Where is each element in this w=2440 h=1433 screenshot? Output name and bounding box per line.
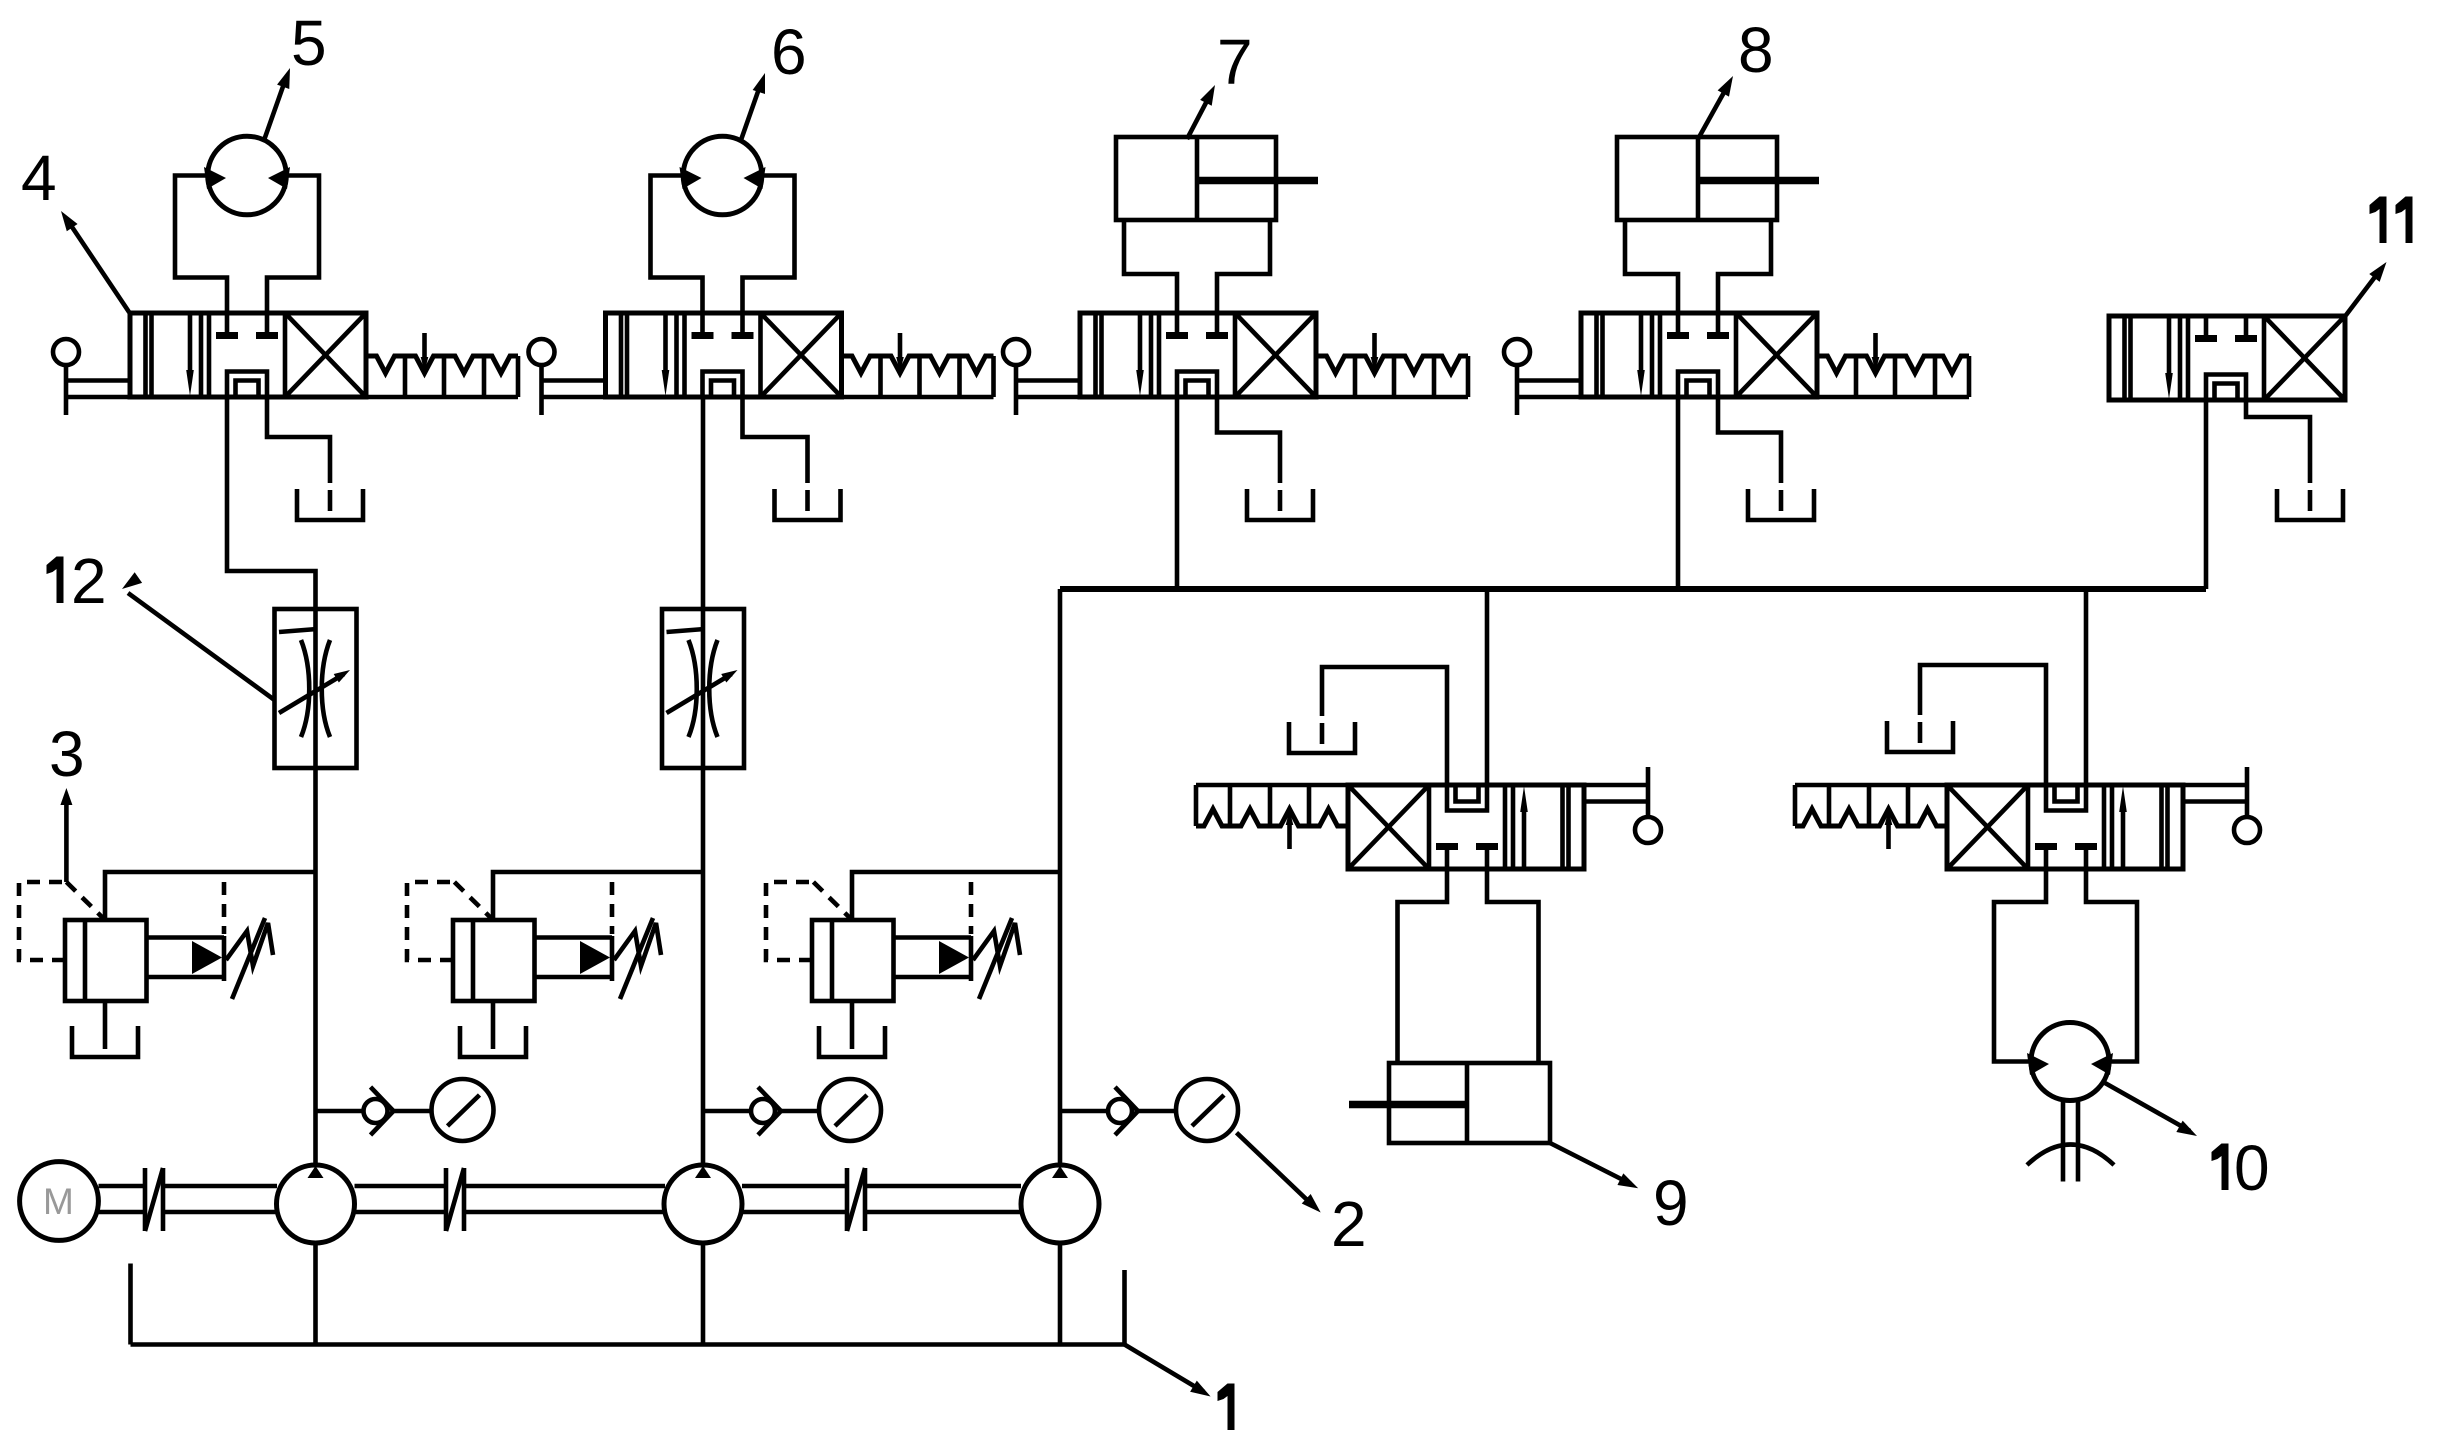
relief valve 3a outlet channel: [147, 935, 225, 940]
wire: valve11 feed to bus: [2204, 400, 2209, 589]
wire: valve1 tank drain: [267, 397, 330, 483]
wire: valve1 feed to flow valve: [227, 397, 316, 609]
relief valve 3a pilot dashed box: [19, 882, 66, 960]
wire: cyl9 funnel right: [1487, 869, 1539, 1063]
relief valve 3b poppet arrow: [580, 941, 610, 974]
coupling 1: [143, 1168, 148, 1231]
wire: cyl9 funnel left: [1398, 869, 1448, 1063]
valve 2 lever: [529, 339, 606, 415]
svg-text:2: 2: [71, 545, 107, 617]
wire: valve4 feed to bus: [1676, 397, 1681, 589]
flow valve 1 adjust tick: [279, 629, 317, 632]
wire: motor5 loop: [175, 176, 227, 314]
relief valve 3b body: [453, 920, 535, 1001]
cylinder 9 barrel: [1389, 1063, 1550, 1143]
wire: gauge branch 1: [316, 1109, 362, 1114]
pressure gauge 3: [1176, 1079, 1238, 1141]
tank relief 3a drain: [72, 1026, 138, 1057]
svg-text:9: 9: [1653, 1167, 1689, 1239]
directional valve (unit 3): [1080, 313, 1316, 397]
wire: valve4 tank drain: [1718, 397, 1781, 483]
hydraulic motor 5: [208, 136, 287, 215]
svg-text:6: 6: [771, 16, 807, 88]
valve 2 spring: [842, 333, 994, 397]
svg-text:8: 8: [1738, 14, 1774, 86]
directional valve 4 (unit 1): [130, 313, 366, 397]
wire: cyl9 valve tank line: [1322, 667, 1447, 785]
shaft pump1 to coupling2: [355, 1184, 445, 1189]
flow control valve (unit2): [662, 609, 744, 768]
relief valve 3b pilot dashed box: [407, 882, 454, 960]
wire: motor6 loop: [651, 176, 703, 314]
distribution bus line: [1060, 586, 2206, 592]
wire: gauge branch 2: [703, 1109, 749, 1114]
bus right stub: [1122, 1270, 1127, 1345]
pump 2: [664, 1165, 742, 1243]
motor 5 inlet arrow right: [268, 167, 290, 189]
pump 3: [1021, 1165, 1099, 1243]
directional valve (unit 2): [606, 313, 842, 397]
wire: main line through flow valve 2: [701, 609, 706, 768]
svg-text:M: M: [43, 1181, 74, 1222]
cylinder 7 piston: [1195, 137, 1200, 220]
tank valve4 drain: [1748, 489, 1814, 520]
label 5 leader: [264, 78, 287, 142]
label 12 leader: [128, 593, 275, 700]
cylinder 7 barrel: [1116, 137, 1276, 220]
relief valve 3b pilot dash to channel: [610, 882, 615, 934]
hydraulic motor 6: [683, 136, 762, 215]
motor 10 drain lines: [2061, 1101, 2066, 1182]
wire: gauge branch 3: [1060, 1109, 1106, 1114]
svg-text:7: 7: [1217, 26, 1253, 98]
wire: feed drop to motor10 valve: [2084, 589, 2089, 785]
bus left stub: [128, 1264, 133, 1345]
cylinder 9 rod: [1349, 1101, 1467, 1109]
wire: valve3 feed to bus: [1175, 397, 1180, 589]
svg-text:0: 0: [2234, 1132, 2270, 1204]
tank valve2 drain: [775, 489, 841, 520]
label 1: [1228, 1384, 1235, 1431]
valve 1 lever: [53, 339, 130, 415]
valve 3 lever: [1003, 339, 1080, 415]
wire: valve2 tank drain: [743, 397, 808, 483]
wire: relief 3c drain: [850, 1001, 855, 1049]
cylinder 7 mount funnel: [1124, 220, 1177, 313]
shaft M to coupling1: [99, 1184, 144, 1189]
svg-text:2: 2: [1331, 1188, 1367, 1260]
relief valve 3a pilot dash to channel: [222, 882, 227, 934]
electric motor M: [20, 1162, 99, 1241]
label 2 leader: [1237, 1133, 1315, 1207]
label 9 leader: [1550, 1143, 1631, 1184]
coupling 2: [444, 1168, 449, 1231]
wire: pump3 suction: [1058, 1243, 1063, 1345]
tank valve3 drain: [1247, 489, 1313, 520]
wire: valve3 tank drain: [1217, 397, 1280, 483]
shaft coupling1 to pump1: [165, 1184, 277, 1189]
check valve 1: [364, 1099, 388, 1123]
wire: pump2 suction: [701, 1243, 706, 1345]
wire: valve11 tank drain: [2246, 400, 2310, 483]
cylinder 9 piston: [1465, 1063, 1470, 1143]
cylinder 8 piston: [1696, 137, 1701, 220]
motor 10 drain arc: [2027, 1145, 2114, 1166]
wire: relief 3b drain: [491, 1001, 496, 1049]
wire: feed drop to cyl9 valve: [1485, 589, 1490, 785]
relief valve 3b outlet channel: [535, 935, 613, 940]
tank relief 3b drain: [460, 1026, 526, 1057]
valve 4 lever: [1504, 339, 1581, 415]
cyl9 valve spring: [1196, 785, 1348, 849]
tank valve11 drain: [2277, 489, 2343, 520]
check valve 2: [751, 1099, 775, 1123]
relief valve 3c pilot dash to channel: [969, 882, 974, 934]
wire: valve2 feed down: [701, 397, 706, 609]
relief valve 3c spring: [973, 923, 1020, 966]
label 12: [57, 557, 64, 604]
hydraulic motor 10: [2031, 1023, 2109, 1101]
relief valve 3c pilot dashed box: [766, 882, 813, 960]
motor10 valve spring: [1795, 785, 1947, 849]
valve 1 spring: [366, 333, 518, 397]
valve 3 spring: [1316, 333, 1468, 397]
pump 1: [277, 1165, 355, 1243]
valve 4 spring: [1817, 333, 1969, 397]
mirrored directional valve (motor 10): [1947, 785, 2183, 869]
relief valve 3a body: [65, 920, 147, 1001]
tank relief 3c drain: [819, 1026, 885, 1057]
label 3 arrow: [64, 800, 69, 882]
svg-text:4: 4: [21, 142, 57, 214]
relief valve 3c poppet arrow: [939, 941, 969, 974]
flow control valve 12 (unit1): [275, 609, 357, 768]
label 1 leader: [1125, 1345, 1205, 1393]
tank valve1 drain: [297, 489, 363, 520]
directional valve 11: [2109, 316, 2345, 400]
flow valve 2 throttle arcs: [689, 640, 697, 737]
wire: motor10 valve tank line: [1920, 665, 2046, 785]
tank motor10 valve drain: [1887, 721, 1953, 752]
motor 10 inlet arrow left: [2027, 1053, 2049, 1075]
riser 1: [313, 768, 318, 1165]
label 10: [2222, 1144, 2229, 1191]
motor10 valve lever: [2183, 767, 2260, 843]
flow valve 2 adjust arrow: [667, 674, 732, 713]
wire: relief 3c top line to riser: [852, 872, 1060, 920]
wire: relief 3b top line to riser: [493, 872, 703, 920]
label 7 leader: [1187, 97, 1209, 139]
mirrored directional valve (cyl 9): [1348, 785, 1584, 869]
tank cyl9 valve drain: [1289, 722, 1355, 753]
wire: main line through flow valve 1: [313, 609, 318, 768]
pressure gauge 1: [432, 1079, 494, 1141]
relief valve 3c outlet channel: [894, 935, 972, 940]
wire: relief 3a drain: [103, 1001, 108, 1049]
shaft coupling2 to pump2: [466, 1184, 665, 1189]
label 11: [2380, 197, 2387, 244]
wire: pump1 suction: [313, 1243, 318, 1345]
wire: motor10 loop right: [2086, 869, 2137, 1062]
pressure gauge 2: [819, 1079, 881, 1141]
label 8 leader: [1698, 87, 1727, 139]
relief valve 3a spring: [226, 923, 273, 966]
cyl9 valve lever: [1584, 767, 1661, 843]
label 10 leader: [2105, 1083, 2190, 1131]
motor 10 inlet arrow right: [2091, 1053, 2113, 1075]
suction bus line 1: [131, 1342, 1125, 1347]
motor 5 inlet arrow left: [204, 167, 226, 189]
relief valve 3a poppet arrow: [192, 941, 222, 974]
flow valve 1 adjust arrow: [279, 674, 344, 713]
motor 6 inlet arrow left: [680, 167, 702, 189]
svg-text:5: 5: [291, 7, 327, 79]
riser 2: [701, 768, 706, 1165]
directional valve (unit 4): [1581, 313, 1817, 397]
motor 6 inlet arrow right: [744, 167, 766, 189]
shaft coupling3 to pump3: [867, 1184, 1021, 1189]
relief valve 3c body: [812, 920, 894, 1001]
cylinder 8 barrel: [1617, 137, 1777, 220]
wire: motor10 loop left: [1994, 869, 2046, 1062]
cylinder 8 mount funnel: [1625, 220, 1678, 313]
flow valve 1 throttle arcs: [301, 640, 309, 737]
shaft pump2 to coupling3: [742, 1184, 845, 1189]
label 11 leader: [2345, 269, 2381, 316]
svg-text:3: 3: [49, 718, 85, 790]
label 6 leader: [741, 83, 761, 140]
label 4 leader: [66, 218, 131, 315]
relief valve 3b spring: [614, 923, 661, 966]
wire: relief 3a top line to riser: [105, 872, 316, 920]
cylinder 8 rod: [1698, 177, 1819, 185]
check valve 3: [1108, 1099, 1132, 1123]
riser 3: [1058, 589, 1063, 1165]
coupling 3: [845, 1168, 850, 1231]
cylinder 7 rod: [1197, 177, 1318, 185]
